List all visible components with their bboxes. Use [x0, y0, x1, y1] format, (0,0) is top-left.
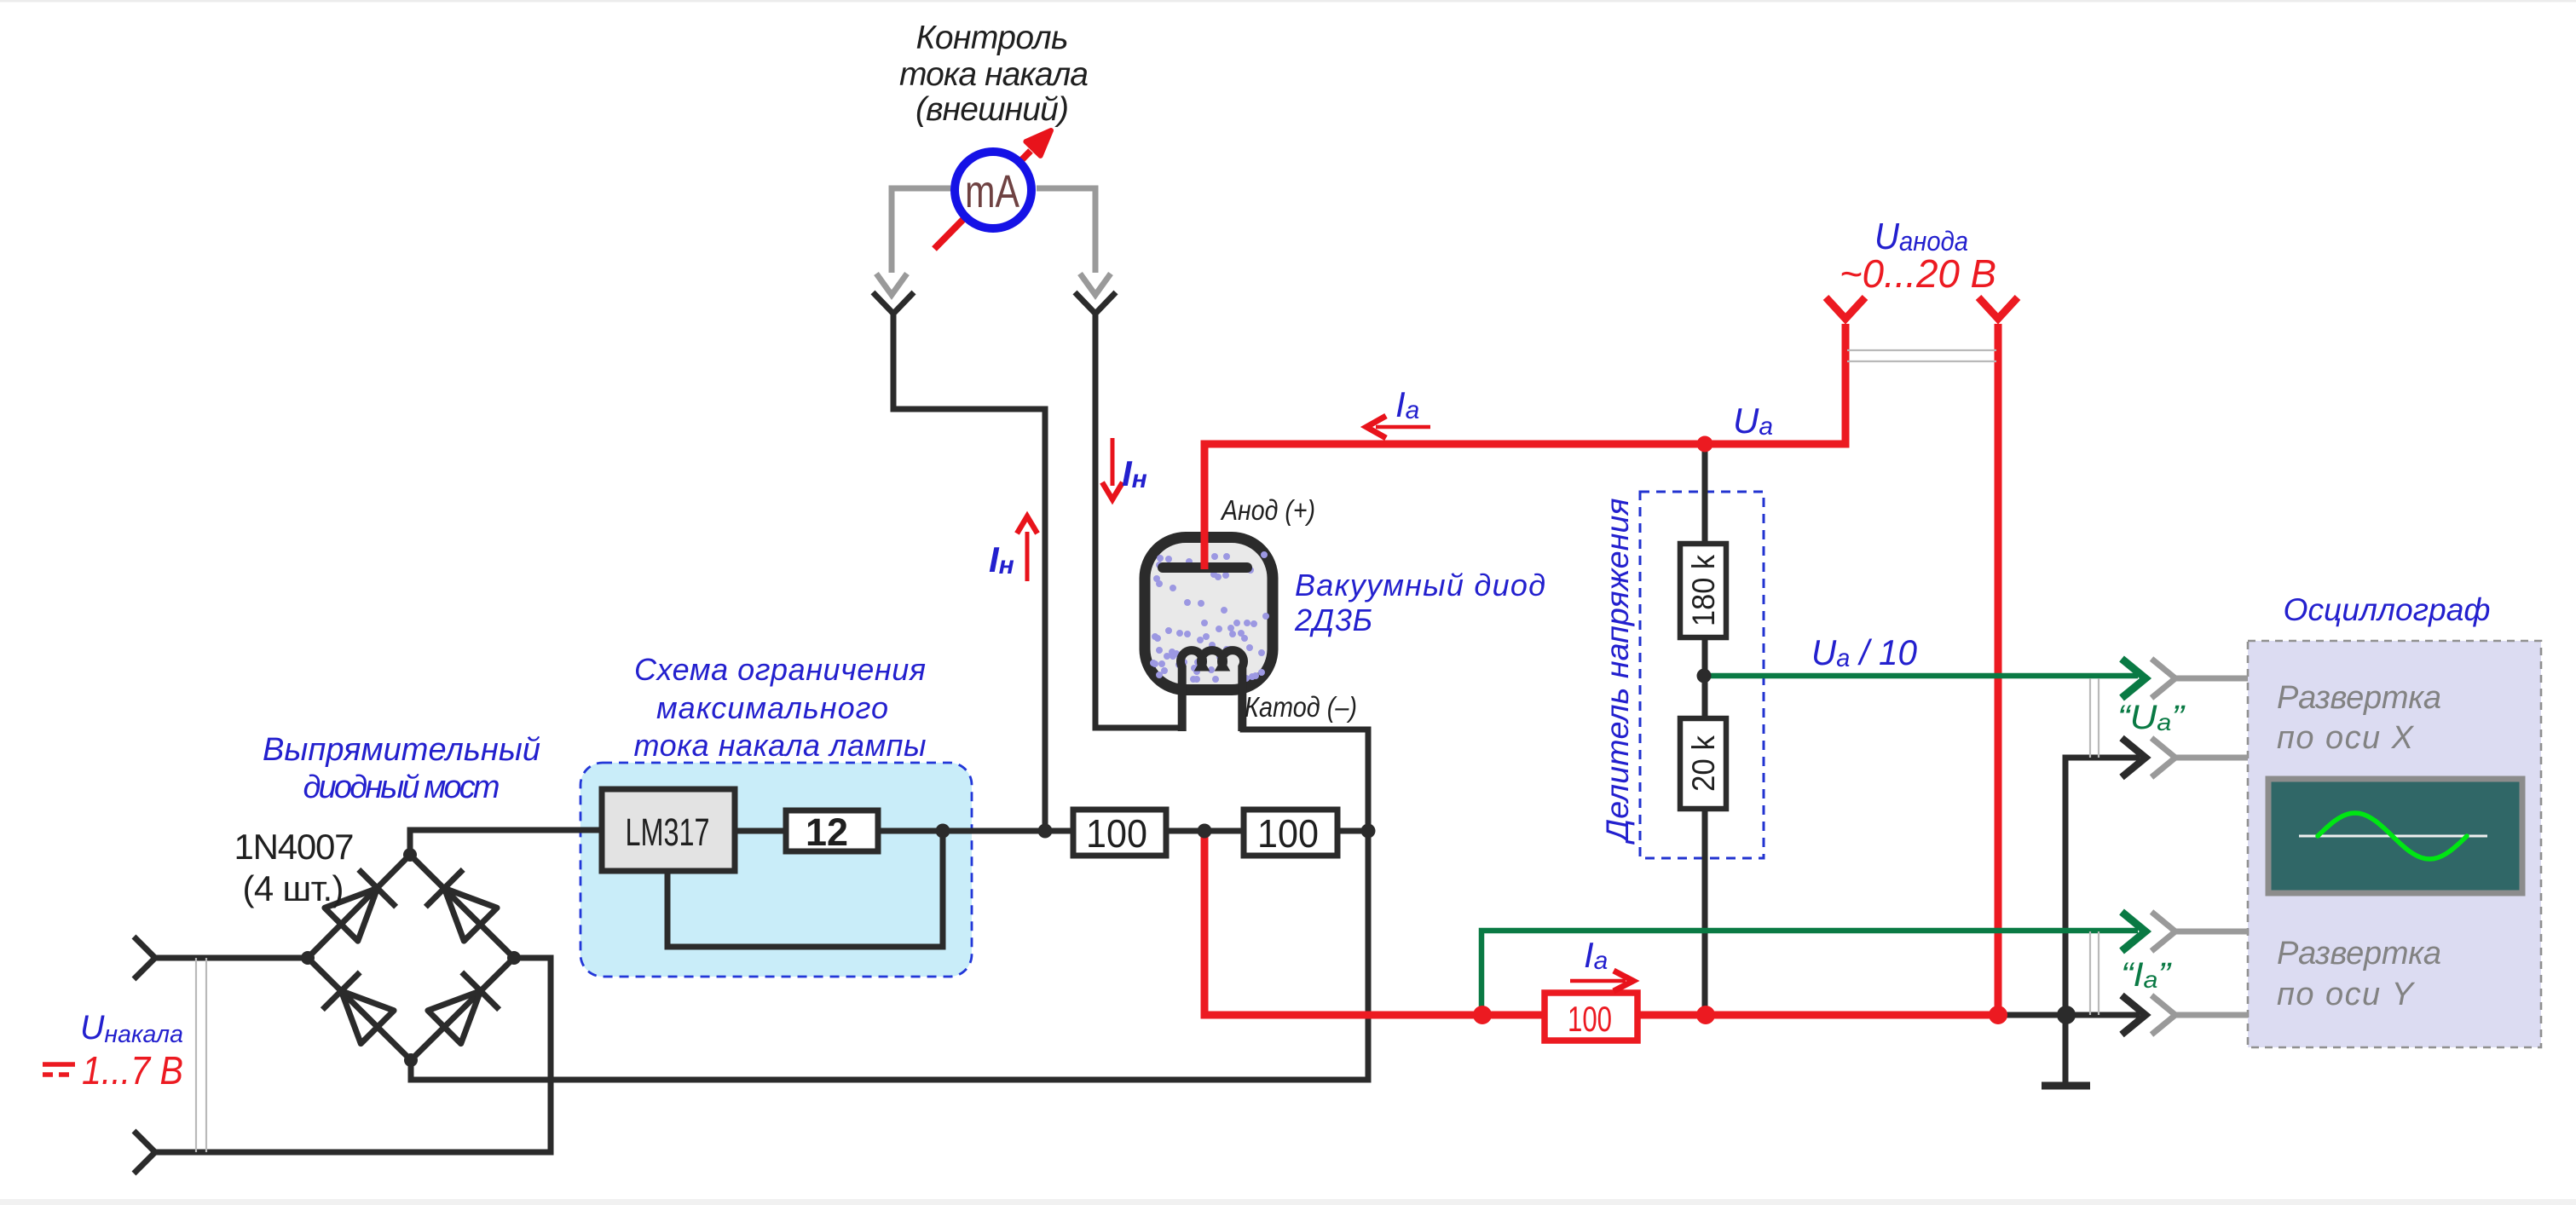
block: oscilloscope panel: [2248, 641, 2541, 1047]
svg-text:Контроль: Контроль: [916, 20, 1069, 56]
arrow: green Ia into scope: [2122, 912, 2146, 951]
svg-text:Развертка: Развертка: [2277, 936, 2441, 971]
svg-text:Выпрямительный: Выпрямительный: [263, 732, 540, 768]
junction dots red: [1473, 436, 2007, 1025]
wire: LM317 out to R3: [735, 828, 786, 834]
wire: Uanoda right lead down to bottom bus: [1995, 324, 2002, 1015]
milliammeter PA1 body: [955, 152, 1031, 228]
socket: meter plus jack: [1075, 292, 1116, 314]
diode VD4: [428, 972, 500, 1044]
wire: R2 to cathode node: [1337, 828, 1372, 834]
svg-text:(4 шт.): (4 шт.): [243, 868, 344, 908]
wire: R4 to R5 divider tap: [1702, 634, 1708, 722]
scope trace sine: [2318, 813, 2467, 859]
vacuum diode V1 gas dots: [1153, 555, 1266, 679]
svg-text:тока накала лампы: тока накала лампы: [634, 728, 927, 763]
label: 1N4007: [234, 827, 355, 908]
vacuum diode V1 anode plate: [1163, 562, 1247, 573]
wire: R1 to R2: [1166, 828, 1244, 834]
symbol: DC mark: [43, 1064, 75, 1075]
svg-text:180 k: 180 k: [1686, 555, 1721, 626]
socket: heater input lower: [134, 1131, 155, 1173]
milliammeter PA1 plug arrow left: [876, 274, 907, 295]
svg-text:1...7 В: 1...7 В: [82, 1048, 183, 1093]
svg-text:Вакуумный диод: Вакуумный диод: [1295, 568, 1545, 602]
wire: scope Y ground input: [2001, 1012, 2140, 1018]
svg-text:mA: mA: [965, 166, 1019, 217]
arrow: Ia left on anode bus: [1366, 416, 1430, 438]
svg-text:диодный мост: диодный мост: [303, 770, 500, 805]
svg-text:Схема ограничения: Схема ограничения: [634, 652, 926, 687]
svg-text:20 k: 20 k: [1686, 735, 1721, 792]
svg-text:1N4007: 1N4007: [234, 827, 355, 867]
svg-text:2Д3Б: 2Д3Б: [1294, 602, 1372, 637]
svg-text:“Ua”: “Ua”: [2117, 699, 2186, 736]
resistor R2 (100) body: [1244, 810, 1337, 856]
socket: scope X signal: [2151, 659, 2248, 698]
wire: meter minus lead to heater bus: [893, 312, 1045, 831]
arrow: Ia right at shunt: [1570, 971, 1633, 991]
resistor R5 (20k) body: [1680, 718, 1726, 809]
svg-text:LM317: LM317: [626, 810, 710, 854]
block: voltage divider dashed box: [1640, 492, 1764, 858]
diode bridge frame: [308, 855, 514, 1060]
svg-text:100: 100: [1568, 999, 1612, 1039]
milliammeter PA1 plug arrow right: [1080, 274, 1111, 295]
wire: cathode return to bridge bottom: [411, 828, 1368, 1080]
wire: R5 to bottom red bus: [1702, 805, 1708, 1015]
cable marks: scope X pair: [2090, 678, 2099, 758]
svg-text:Ua / 10: Ua / 10: [1811, 632, 1918, 672]
label: sweep Y: [2277, 936, 2441, 1012]
cable marks: Uanoda pair: [1847, 350, 1996, 361]
arrow: black into scope X ground: [2122, 738, 2146, 777]
arrow: green Ua/10 into scope: [2122, 659, 2146, 698]
arrow: In down (right lead): [1102, 438, 1123, 499]
wire: anode red bus from tube to Uanoda socket: [1204, 324, 1845, 569]
diode VD2: [425, 869, 497, 941]
label: bridge caption: [263, 732, 540, 805]
svg-text:по оси X: по оси X: [2277, 720, 2415, 756]
socket: scope Y signal: [2151, 912, 2248, 951]
arrow: In up (left lead): [1017, 516, 1037, 581]
wire: R3 to resistor R1: [878, 828, 1073, 834]
ground: [2042, 1082, 2090, 1090]
socket: Uanoda right: [1978, 297, 2018, 319]
label: vacuum diode name: [1294, 568, 1545, 637]
wire: bridge top to LM317 input: [410, 830, 602, 855]
svg-text:по оси Y: по оси Y: [2277, 977, 2416, 1012]
wire: green Ia tap to scope Y: [1481, 931, 2138, 1015]
socket: Uanoda left: [1826, 297, 1865, 319]
resistor R4 (180k) body: [1680, 544, 1726, 637]
label: sweep X: [2277, 680, 2441, 756]
svg-text:~0...20 В: ~0...20 В: [1840, 251, 1996, 296]
wire: LM317 adj feedback loop: [667, 835, 943, 947]
svg-text:100: 100: [1086, 811, 1147, 856]
cable marks: heater input pair: [196, 958, 206, 1152]
diode VD1: [325, 869, 396, 941]
svg-text:Катод (–): Катод (–): [1245, 691, 1357, 723]
svg-text:100: 100: [1257, 811, 1319, 856]
wire: scope X ground input: [2065, 758, 2140, 1086]
resistor R6 (100 shunt) body: [1545, 993, 1637, 1041]
resistor R1 (100) body: [1073, 810, 1166, 856]
socket: scope X ground: [2151, 738, 2248, 777]
socket: scope Y ground: [2151, 995, 2248, 1035]
svg-text:(внешний): (внешний): [915, 91, 1069, 128]
svg-text:тока накала: тока накала: [899, 56, 1089, 93]
label: meter caption: [899, 20, 1089, 128]
scope screen: [2268, 779, 2522, 893]
svg-text:12: 12: [806, 810, 848, 854]
wire: bottom red bus with shunt: [1204, 833, 2001, 1015]
resistor R3 (12 ohm) body: [786, 810, 878, 851]
arrow: black into scope Y ground: [2122, 995, 2146, 1035]
socket: meter minus jack: [873, 292, 914, 314]
regulator U1 LM317 body: [602, 789, 735, 871]
wire: cathode to resistor row: [1243, 724, 1368, 833]
wire: Ua node to divider R4: [1702, 444, 1708, 547]
socket: heater input upper: [134, 937, 155, 979]
diode VD3: [322, 972, 394, 1044]
svg-text:Развертка: Развертка: [2277, 680, 2441, 716]
milliammeter PA1 gray leads: [892, 188, 1095, 273]
wire: green Ua/10 tap to scope X: [1705, 673, 2138, 679]
vacuum diode V1 envelope: [1145, 538, 1273, 690]
wire: AC input upper to bridge left node: [155, 955, 308, 961]
milliammeter PA1 needle: [934, 151, 1031, 249]
svg-text:Осциллограф: Осциллограф: [2284, 592, 2491, 627]
wire: meter plus lead to heater left leg: [1095, 312, 1181, 728]
junction dots black: [301, 669, 2076, 1068]
wire: AC input lower to bridge right node: [155, 958, 551, 1152]
svg-text:Анод (+): Анод (+): [1220, 494, 1315, 526]
label: limiter caption: [634, 652, 927, 763]
vacuum diode V1 heater/cathode coil: [1181, 650, 1244, 731]
svg-text:Делитель напряжения: Делитель напряжения: [1600, 498, 1635, 845]
block: current limiter box (cyan): [580, 763, 972, 977]
cable marks: scope Y pair: [2090, 931, 2099, 1015]
svg-text:максимального: максимального: [656, 690, 888, 725]
